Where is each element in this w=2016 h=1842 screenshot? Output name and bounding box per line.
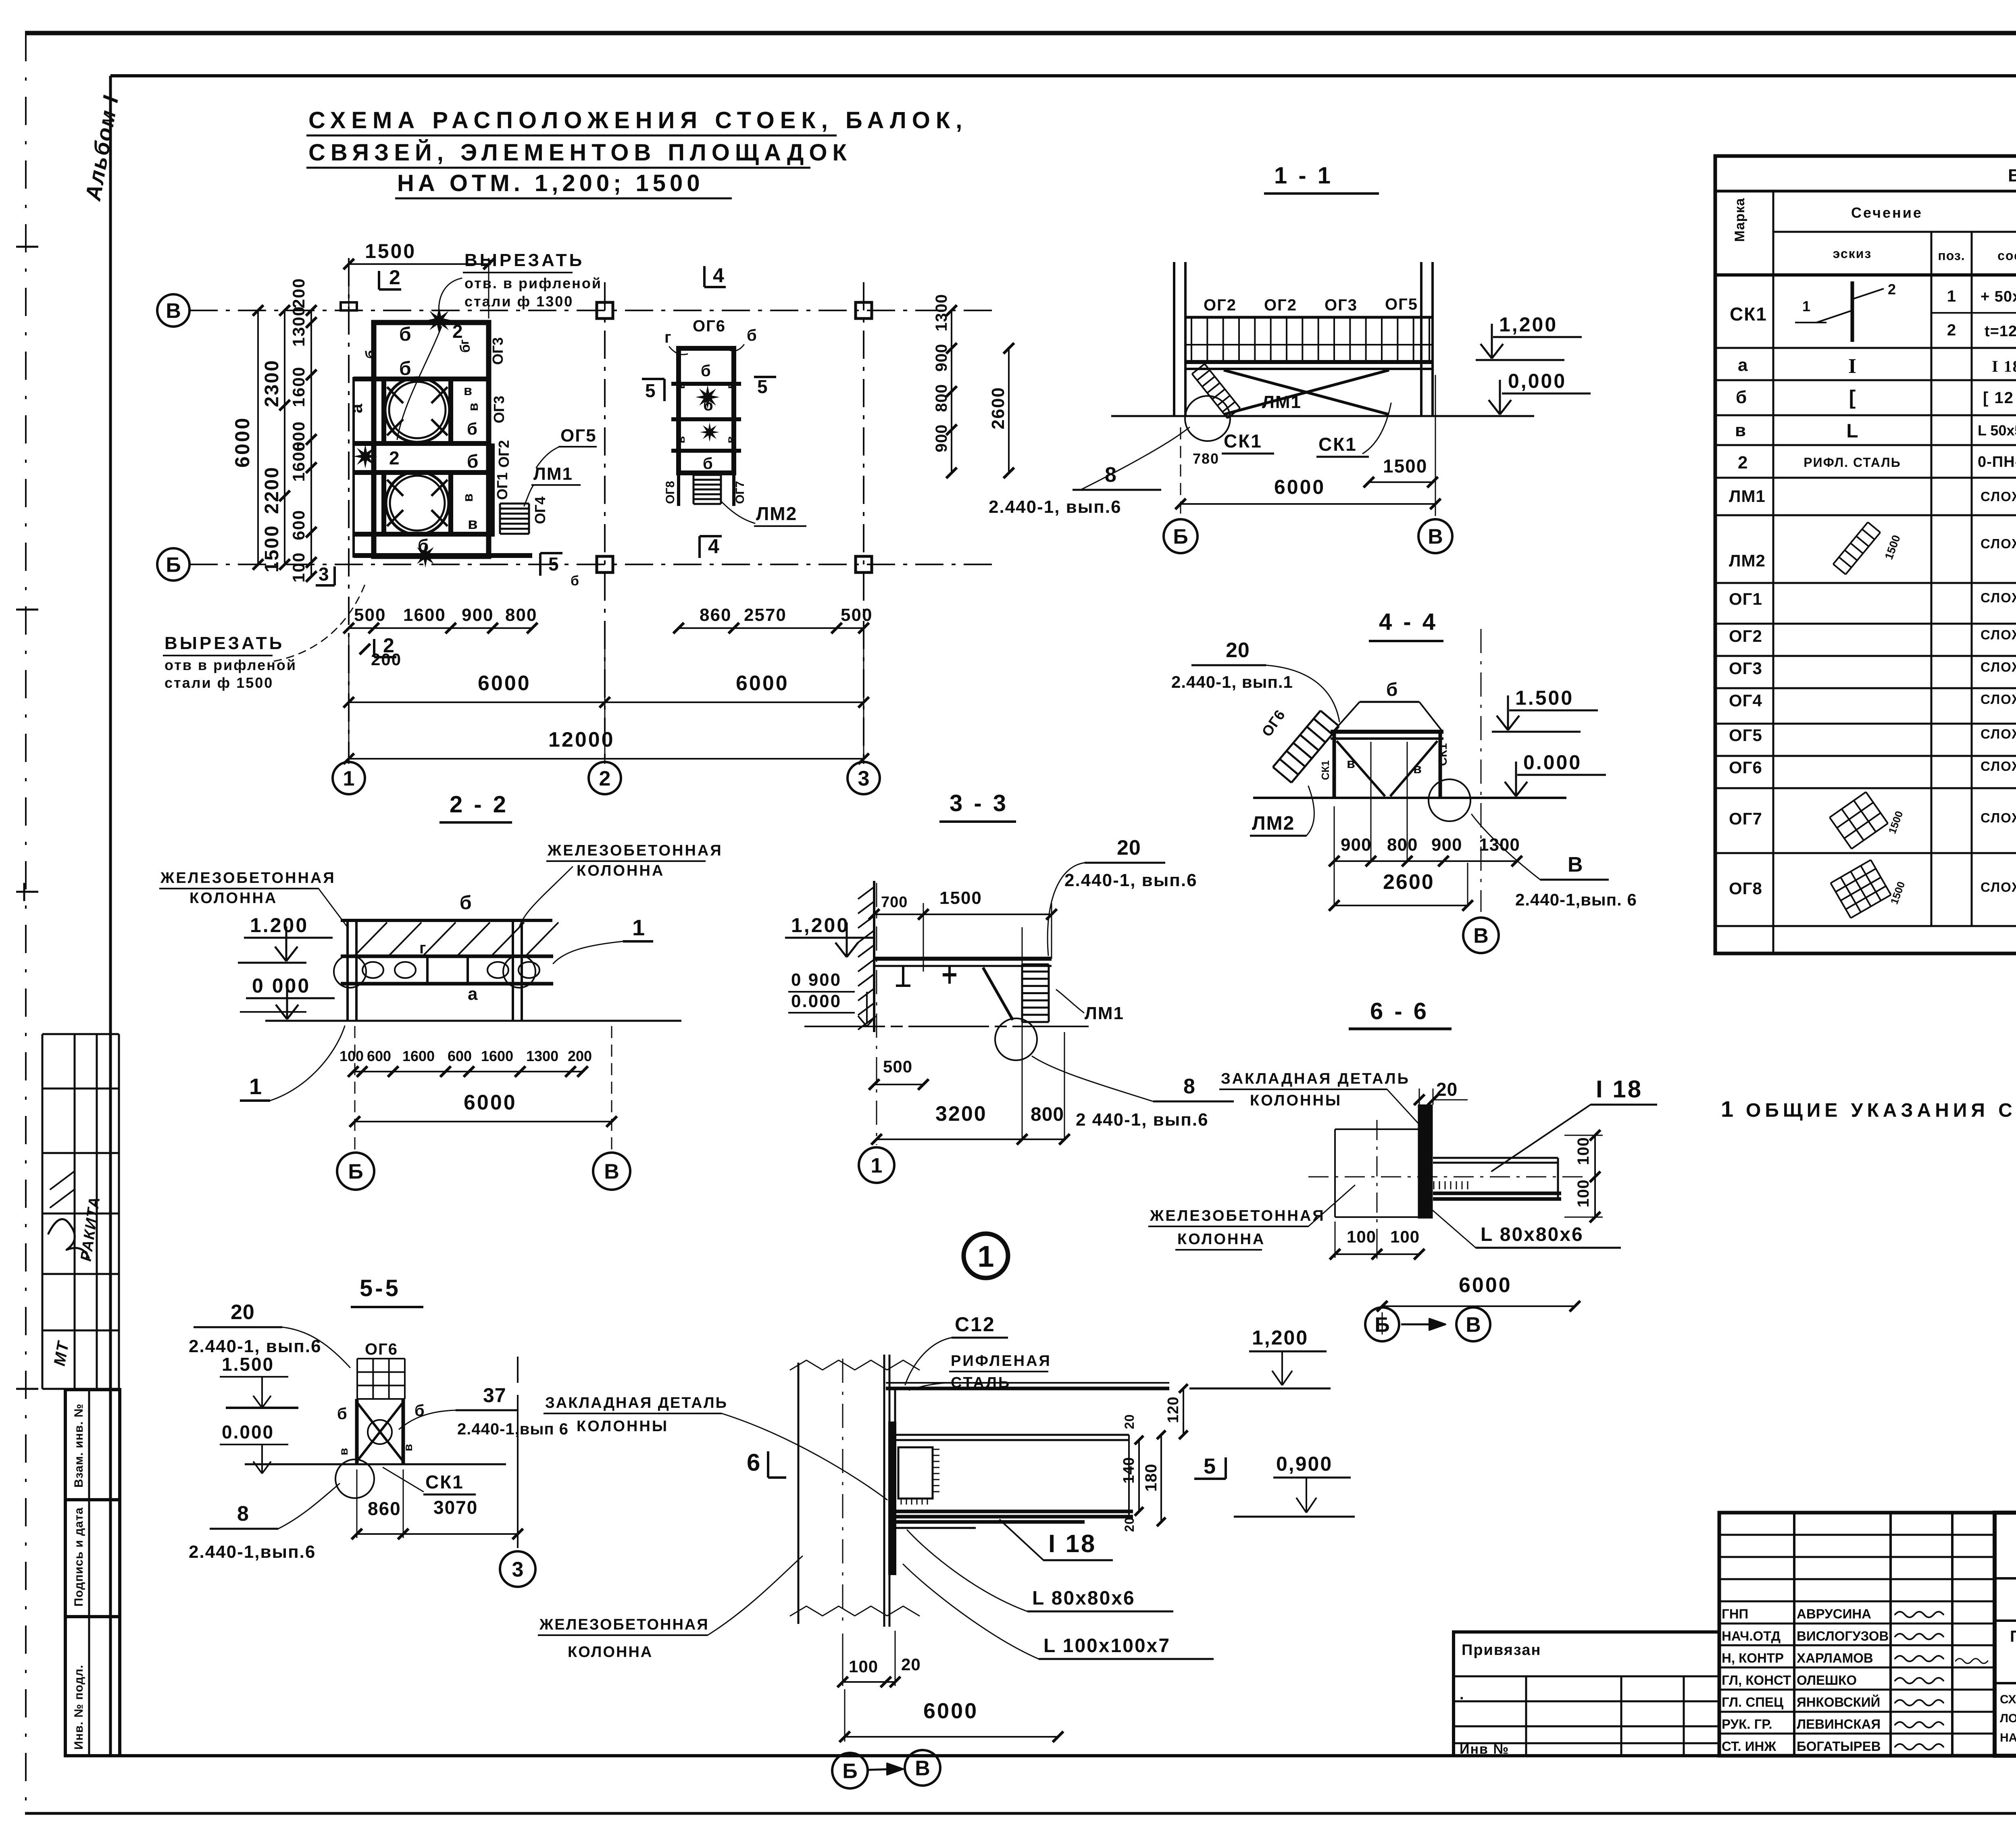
- svg-text:КОЛОННА: КОЛОННА: [190, 890, 277, 907]
- svg-text:ЖЕЛЕЗОБЕТОННАЯ: ЖЕЛЕЗОБЕТОННАЯ: [160, 870, 336, 887]
- svg-text:2: 2: [1888, 281, 1896, 298]
- plan unit 1: internal beams: [354, 377, 489, 381]
- svg-text:СЛОЖНЫЙ: СЛОЖНЫЙ: [1981, 879, 2016, 895]
- svg-text:С12: С12: [955, 1313, 996, 1336]
- svg-text:СХЕМА РАСПОЛОЖЕНИЯ СТОЕК, БА-: СХЕМА РАСПОЛОЖЕНИЯ СТОЕК, БА-: [2000, 1693, 2016, 1706]
- svg-text:СК1: СК1: [1224, 431, 1262, 452]
- section 1-1: railing mid rail: [1187, 344, 1433, 346]
- svg-text:2.440-1, вып.6: 2.440-1, вып.6: [189, 1336, 322, 1356]
- svg-text:состав: состав: [1997, 248, 2016, 263]
- section 1-1: level 1.200: [1491, 324, 1493, 357]
- svg-text:ВИСЛОГУЗОВ: ВИСЛОГУЗОВ: [1797, 1628, 1889, 1643]
- svg-text:Н, КОНТР: Н, КОНТР: [1722, 1651, 1784, 1665]
- svg-text:отв в рифленой: отв в рифленой: [165, 657, 297, 673]
- svg-text:ОГ4: ОГ4: [1729, 691, 1762, 710]
- svg-text:1: 1: [871, 1154, 883, 1178]
- section 2-2: level 0 000: [286, 984, 288, 1018]
- plan unit 1: chamber wall verticals: [381, 379, 386, 443]
- svg-text:5-5: 5-5: [360, 1275, 401, 1301]
- svg-text:5: 5: [1204, 1454, 1216, 1478]
- svg-text:б: б: [467, 451, 478, 472]
- svg-text:1,200: 1,200: [1252, 1326, 1308, 1349]
- node 1: axis circles Б В with arrow: [832, 1753, 868, 1788]
- svg-text:180: 180: [1142, 1463, 1160, 1492]
- section 6-6: centerlines: [1377, 1120, 1378, 1262]
- section 3-3: level 1.200: [846, 922, 848, 955]
- svg-text:200: 200: [568, 1048, 592, 1064]
- svg-text:ГЛ, КОНСТ: ГЛ, КОНСТ: [1722, 1673, 1791, 1688]
- svg-text:В: В: [166, 300, 181, 323]
- svg-text:1600: 1600: [403, 605, 446, 625]
- svg-text:в: в: [468, 515, 478, 533]
- svg-text:2 - 2: 2 - 2: [450, 791, 508, 818]
- plan: axis 1 vertical line: [348, 258, 350, 762]
- svg-text:ОГ8: ОГ8: [1729, 879, 1762, 898]
- svg-text:Сечение: Сечение: [1851, 204, 1923, 221]
- svg-text:120: 120: [1165, 1397, 1182, 1423]
- svg-text:Марка: Марка: [1732, 198, 1747, 242]
- svg-text:0.000: 0.000: [791, 991, 841, 1011]
- svg-text:6000: 6000: [1274, 476, 1325, 498]
- frame top line: [110, 74, 2016, 77]
- node 1: concrete column edges: [798, 1363, 800, 1624]
- svg-text:[ 12: [ 12: [1983, 389, 2014, 407]
- frame left line: [109, 76, 112, 1756]
- svg-text:1500: 1500: [939, 888, 982, 908]
- svg-text:20: 20: [1226, 639, 1250, 662]
- section 1-1: level 0.000: [1499, 380, 1501, 413]
- svg-text:СЛОЖНЫЙ: СЛОЖНЫЙ: [1981, 691, 2016, 707]
- svg-text:1600: 1600: [481, 1048, 513, 1064]
- svg-text:900: 900: [1431, 835, 1462, 855]
- section 1-1: axis circle Б: [1164, 519, 1198, 553]
- svg-text:t=12: t=12: [1985, 323, 2016, 340]
- section 3-3: ladder ЛМ1: [1021, 964, 1023, 1022]
- svg-text:ЯНКОВСКИЙ: ЯНКОВСКИЙ: [1797, 1694, 1880, 1710]
- plan unit 1: right edge lower vertical: [491, 443, 495, 537]
- svg-text:4: 4: [713, 264, 724, 287]
- svg-text:1 - 1: 1 - 1: [1274, 162, 1333, 189]
- svg-text:100: 100: [1574, 1137, 1592, 1165]
- svg-text:Б: Б: [348, 1160, 363, 1184]
- svg-text:г: г: [457, 339, 471, 345]
- parts table header lines: [1773, 231, 2016, 233]
- svg-text:ЛМ2: ЛМ2: [756, 503, 797, 524]
- svg-text:100: 100: [1390, 1227, 1420, 1246]
- svg-text:ОГ6: ОГ6: [1729, 758, 1762, 777]
- svg-text:В: В: [1473, 924, 1489, 948]
- svg-text:6000: 6000: [736, 672, 789, 695]
- svg-text:ЛОК, СВЯЗЕЙ, ЭЛЕМЕНТОВ ПЛОЩАДО: ЛОК, СВЯЗЕЙ, ЭЛЕМЕНТОВ ПЛОЩАДОК: [2000, 1711, 2016, 1725]
- svg-text:6: 6: [747, 1449, 760, 1476]
- plan: axis 3 vertical line: [863, 282, 864, 762]
- section 2-2: right column: [512, 920, 514, 1021]
- svg-text:6000: 6000: [464, 1091, 517, 1114]
- svg-text:1,200: 1,200: [791, 914, 850, 937]
- section 1-1: left column: [1173, 262, 1175, 416]
- svg-text:стали ф 1300: стали ф 1300: [464, 293, 573, 310]
- section 3-3: wall line with hatch: [873, 881, 875, 1032]
- svg-text:ОЛЕШКО: ОЛЕШКО: [1797, 1673, 1857, 1688]
- svg-text:б: б: [458, 344, 473, 353]
- svg-text:20: 20: [231, 1301, 255, 1324]
- plan unit 1: ink star top: [425, 307, 453, 334]
- svg-text:900: 900: [1341, 835, 1371, 855]
- svg-text:Подпись и дата: Подпись и дата: [72, 1507, 85, 1607]
- svg-text:ОГ5: ОГ5: [1385, 296, 1418, 313]
- svg-text:0,900: 0,900: [1276, 1453, 1333, 1475]
- svg-text:в: в: [464, 383, 472, 398]
- svg-text:ОГ3: ОГ3: [1729, 659, 1762, 678]
- svg-text:1: 1: [249, 1074, 262, 1099]
- svg-text:3 - 3: 3 - 3: [950, 790, 1008, 816]
- plan unit 1: tank circle top: [385, 378, 450, 442]
- svg-text:100: 100: [1574, 1179, 1592, 1207]
- svg-text:ОГ1: ОГ1: [494, 472, 510, 500]
- svg-text:[: [: [1849, 386, 1856, 409]
- svg-text:СЛОЖНЫЙ: СЛОЖНЫЙ: [1981, 536, 2016, 551]
- svg-text:200: 200: [371, 650, 402, 669]
- svg-text:б: б: [701, 362, 711, 380]
- svg-text:ЖЕЛЕЗОБЕТОННАЯ: ЖЕЛЕЗОБЕТОННАЯ: [539, 1616, 709, 1633]
- svg-text:2.440-1, вып.1: 2.440-1, вып.1: [1171, 672, 1293, 691]
- svg-text:1500: 1500: [261, 525, 283, 572]
- section 4-4: ground line: [1253, 797, 1566, 799]
- section 1-1: right column: [1420, 262, 1422, 416]
- svg-text:860: 860: [700, 605, 731, 625]
- svg-text:3070: 3070: [433, 1497, 478, 1518]
- svg-text:6000: 6000: [923, 1699, 978, 1723]
- svg-text:ОГ3: ОГ3: [489, 337, 506, 365]
- parts table СК1 sub-row line: [1931, 312, 2016, 314]
- svg-text:В: В: [1428, 525, 1443, 549]
- svg-text:ЗАКЛАДНАЯ ДЕТАЛЬ: ЗАКЛАДНАЯ ДЕТАЛЬ: [1221, 1070, 1410, 1087]
- svg-text:РИФЛЕНАЯ: РИФЛЕНАЯ: [951, 1353, 1052, 1370]
- svg-text:1.500: 1.500: [1515, 687, 1574, 709]
- svg-text:100: 100: [1347, 1227, 1376, 1246]
- svg-text:б: б: [1386, 679, 1397, 700]
- section 4-4: node circle: [1429, 779, 1470, 821]
- section 2-2: beam band details: [362, 962, 383, 978]
- section 2-2: column node circles: [334, 955, 366, 988]
- svg-text:ОГ2: ОГ2: [496, 440, 512, 468]
- svg-text:СТ. ИНЖ: СТ. ИНЖ: [1722, 1739, 1776, 1754]
- svg-text:6000: 6000: [1459, 1274, 1512, 1297]
- svg-text:1500: 1500: [365, 240, 416, 262]
- svg-text:20: 20: [901, 1655, 921, 1674]
- plan unit 1: tank circle bottom: [386, 472, 449, 535]
- plan: axis circle 2: [589, 762, 621, 794]
- plan unit 1: outer bold frame: [374, 323, 489, 556]
- svg-text:800: 800: [933, 384, 950, 412]
- svg-text:б: б: [337, 1405, 347, 1423]
- svg-text:СЛОЖНЫЙ: СЛОЖНЫЙ: [1981, 489, 2016, 504]
- svg-text:ОГ1: ОГ1: [1729, 589, 1762, 608]
- plan unit 1: ink star bottom: [413, 543, 437, 568]
- svg-text:Б: Б: [842, 1760, 857, 1783]
- svg-text:в: в: [674, 436, 687, 443]
- node 1: gusset plate with weld hatch: [898, 1447, 933, 1499]
- svg-text:ОГ4: ОГ4: [532, 497, 548, 524]
- svg-text:5: 5: [757, 376, 768, 397]
- svg-text:ОГ5: ОГ5: [1729, 726, 1762, 745]
- section 5-5: axis circle 3: [500, 1551, 535, 1587]
- svg-text:КОЛОННА: КОЛОННА: [577, 862, 664, 879]
- svg-text:ВЫРЕЗАТЬ: ВЫРЕЗАТЬ: [464, 250, 584, 270]
- svg-text:ХАРЛАМОВ: ХАРЛАМОВ: [1797, 1651, 1873, 1665]
- svg-text:СЛОЖНЫЙ: СЛОЖНЫЙ: [1981, 627, 2016, 642]
- plan unit 2: ladder ЛМ2: [693, 475, 695, 504]
- node 1: right dim chains 120 140 180: [1138, 1440, 1140, 1511]
- node 1: I-beam top flange: [895, 1434, 1129, 1436]
- svg-text:2.440-1, вып.6: 2.440-1, вып.6: [989, 497, 1122, 517]
- svg-text:ОГ8: ОГ8: [664, 481, 677, 504]
- svg-text:В: В: [915, 1757, 930, 1780]
- svg-text:700: 700: [881, 894, 908, 911]
- node 1: column break marks: [790, 1360, 919, 1370]
- svg-text:2.440-1,вып 6: 2.440-1,вып 6: [457, 1420, 569, 1438]
- svg-text:8: 8: [1183, 1075, 1195, 1098]
- svg-text:100: 100: [339, 1048, 364, 1064]
- svg-text:В: В: [604, 1160, 619, 1184]
- svg-text:б: б: [399, 358, 411, 379]
- section 2-2: left column: [346, 920, 349, 1021]
- plan unit 1: left wing vertical: [352, 377, 355, 558]
- svg-text:ОГ2: ОГ2: [1264, 296, 1297, 314]
- svg-text:I 18: I 18: [1596, 1076, 1643, 1103]
- svg-text:1.500: 1.500: [222, 1354, 274, 1375]
- svg-text:1: 1: [1947, 287, 1956, 305]
- svg-text:+ 50х52х5: + 50х52х5: [1981, 288, 2016, 305]
- svg-text:900: 900: [933, 424, 950, 452]
- section 2-2: top slab line: [341, 919, 552, 922]
- svg-text:ЗАКЛАДНАЯ ДЕТАЛЬ: ЗАКЛАДНАЯ ДЕТАЛЬ: [545, 1395, 728, 1411]
- svg-text:2600: 2600: [988, 387, 1008, 429]
- svg-text:3200: 3200: [935, 1102, 987, 1126]
- svg-text:поз.: поз.: [1938, 248, 1965, 263]
- svg-text:в: в: [402, 1444, 415, 1451]
- svg-text:.: .: [1460, 1686, 1465, 1703]
- svg-text:4 - 4: 4 - 4: [1379, 609, 1438, 635]
- svg-text:2: 2: [389, 447, 400, 468]
- svg-text:КОЛОННА: КОЛОННА: [1177, 1231, 1265, 1248]
- svg-text:Б: Б: [1375, 1313, 1389, 1337]
- section 1-1: railing top rail: [1187, 316, 1433, 319]
- plan unit 2: outer bold frame: [679, 348, 734, 473]
- svg-text:1500: 1500: [1383, 456, 1427, 477]
- svg-text:L: L: [1846, 420, 1858, 442]
- section 1-1: platform band: [1187, 360, 1433, 364]
- section 6-6: I-beam end: [1557, 1158, 1559, 1199]
- svg-text:ОГ5: ОГ5: [560, 426, 597, 445]
- svg-text:СЛОЖНЫЙ: СЛОЖНЫЙ: [1981, 726, 2016, 741]
- section 2-2: beam band: [341, 955, 553, 958]
- svg-text:НАЧ.ОТД: НАЧ.ОТД: [1722, 1628, 1781, 1643]
- section 4-4: platform: [1331, 730, 1443, 734]
- svg-text:СЛОЖНЫЙ: СЛОЖНЫЙ: [1981, 810, 2016, 825]
- section 6-6: weld ticks: [1433, 1181, 1435, 1189]
- sheet bottom edge line: [25, 1812, 2016, 1815]
- plan: axis circle В: [157, 294, 190, 327]
- parts table title underline / header top: [1715, 190, 2016, 193]
- left margin tick marks: [16, 246, 38, 248]
- svg-text:1300: 1300: [526, 1048, 558, 1064]
- section 6-6: I-beam bottom flange: [1433, 1192, 1561, 1195]
- svg-text:2 440-1, вып.6: 2 440-1, вып.6: [1076, 1110, 1209, 1130]
- section 1-1: axis circle В: [1418, 519, 1452, 553]
- svg-text:900: 900: [462, 605, 494, 625]
- svg-text:СК1: СК1: [1318, 434, 1357, 455]
- svg-text:СК1: СК1: [425, 1472, 464, 1492]
- section 4-4: top slab trapezoid: [1360, 701, 1419, 703]
- svg-text:ОГ2: ОГ2: [1204, 296, 1237, 314]
- svg-text:в: в: [724, 382, 737, 389]
- plan: axis circle Б: [157, 548, 190, 581]
- section 1-1: ground line: [1111, 415, 1534, 417]
- svg-text:ОБЩИЕ УКАЗАНИЯ СМ ЛИСТ 1.: ОБЩИЕ УКАЗАНИЯ СМ ЛИСТ 1.: [1746, 1100, 2016, 1121]
- plan unit 1: leader from star to cut note: [397, 327, 442, 439]
- svg-text:100: 100: [849, 1657, 878, 1676]
- section 4-4: columns: [1333, 732, 1336, 798]
- upper-left stamp scribble: [48, 1219, 89, 1258]
- svg-text:СЛОЖНЫЙ: СЛОЖНЫЙ: [1981, 758, 2016, 774]
- section 6-6: axis circles Б and В with arrow: [1365, 1307, 1399, 1341]
- svg-text:1600: 1600: [289, 441, 308, 482]
- svg-text:ЛМ1: ЛМ1: [533, 464, 573, 484]
- svg-text:500: 500: [354, 605, 386, 625]
- svg-text:2: 2: [599, 767, 611, 791]
- section 5-5: column with X brace: [355, 1399, 359, 1464]
- section 4-4: axis dash line and circle В: [1481, 629, 1482, 912]
- section 4-4: level 0.000: [1515, 762, 1517, 795]
- section 1-1: node circle: [1185, 396, 1230, 441]
- svg-text:В: В: [1466, 1313, 1481, 1337]
- svg-text:600: 600: [448, 1048, 472, 1064]
- plan unit 1: ink star middle: [353, 444, 377, 468]
- svg-text:1.200: 1.200: [250, 914, 308, 937]
- svg-text:1: 1: [343, 767, 355, 791]
- section 5-5: vertical ref line: [517, 1395, 519, 1548]
- svg-text:200: 200: [289, 278, 308, 308]
- plan unit 2: ink stars: [696, 385, 720, 409]
- svg-text:1: 1: [977, 1240, 994, 1273]
- svg-text:ПУНКТ ПРИГОТОВЛЕНИЯ: ПУНКТ ПРИГОТОВЛЕНИЯ: [2010, 1628, 2016, 1645]
- section 2-2: axis circle Б: [337, 1153, 374, 1190]
- svg-text:КОЛОННЫ: КОЛОННЫ: [1250, 1092, 1342, 1109]
- svg-text:I 18: I 18: [1992, 357, 2016, 375]
- svg-text:2: 2: [1738, 453, 1747, 472]
- section 3-3: brace diagonal: [983, 968, 1013, 1020]
- svg-text:100: 100: [289, 552, 308, 583]
- svg-text:1,200: 1,200: [1499, 313, 1558, 336]
- svg-text:В: В: [1568, 853, 1583, 876]
- svg-text:б: б: [399, 324, 411, 345]
- svg-text:ОГ3: ОГ3: [1325, 296, 1358, 314]
- plan: axis circle 1: [333, 762, 365, 794]
- svg-text:0,000: 0,000: [1508, 370, 1566, 392]
- svg-text:Ведомость элементов: Ведомость элементов: [2008, 166, 2016, 185]
- section 4-4: level 1.500: [1507, 695, 1509, 728]
- svg-text:БОГАТЫРЕВ: БОГАТЫРЕВ: [1797, 1739, 1881, 1754]
- svg-text:Инв №: Инв №: [1460, 1742, 1509, 1757]
- svg-text:ГЛ. СПЕЦ: ГЛ. СПЕЦ: [1722, 1695, 1783, 1710]
- svg-text:ЛМ1: ЛМ1: [1262, 392, 1302, 412]
- section 5-5: node circle: [335, 1459, 374, 1498]
- section 6-6: embedded plate: [1419, 1106, 1431, 1217]
- svg-text:КОЛОННЫ: КОЛОННЫ: [577, 1418, 669, 1435]
- section 6-6: right dims 100 100: [1594, 1135, 1596, 1217]
- svg-text:ОГ7: ОГ7: [733, 481, 747, 504]
- plan unit 2: internal beams: [671, 382, 741, 386]
- svg-text:в: в: [337, 1448, 350, 1455]
- svg-text:ОГ6: ОГ6: [365, 1340, 398, 1358]
- svg-text:б: б: [362, 350, 379, 359]
- section 6-6: I-beam top flange: [1433, 1157, 1558, 1159]
- svg-text:СХЕМА РАСПОЛОЖЕНИЯ СТОЕК, БАЛО: СХЕМА РАСПОЛОЖЕНИЯ СТОЕК, БАЛОК,: [308, 107, 968, 133]
- svg-text:L 80х80х6: L 80х80х6: [1481, 1224, 1584, 1245]
- svg-text:2300: 2300: [261, 359, 283, 407]
- svg-text:Б: Б: [166, 554, 181, 577]
- svg-text:а: а: [347, 404, 366, 413]
- svg-text:в: в: [460, 493, 476, 502]
- svg-text:б: б: [703, 455, 713, 472]
- svg-text:СЛОЖНЫЙ: СЛОЖНЫЙ: [1981, 659, 2016, 674]
- node 1: big circle marker: [964, 1234, 1008, 1278]
- svg-text:эскиз: эскиз: [1833, 246, 1872, 261]
- svg-text:0 900: 0 900: [791, 970, 841, 990]
- svg-text:в: в: [674, 382, 687, 389]
- svg-text:в: в: [1413, 761, 1422, 776]
- plan unit 1: corner braces top chamber: [387, 387, 403, 403]
- parts table (Ведомость элементов) outer border: [1715, 156, 2016, 953]
- section 1-1: railing posts: [1191, 317, 1192, 362]
- section 3-3: hanger details: [902, 966, 904, 986]
- svg-text:ЛМ2: ЛМ2: [1729, 551, 1766, 570]
- svg-text:ОГ3: ОГ3: [491, 396, 507, 423]
- section 3-3: ground line: [804, 1026, 1089, 1027]
- svg-text:б: б: [418, 536, 429, 556]
- svg-text:1: 1: [1721, 1096, 1733, 1122]
- svg-text:АВРУСИНА: АВРУСИНА: [1797, 1607, 1871, 1621]
- svg-text:б: б: [571, 573, 579, 589]
- upper-left stamp table: [42, 1034, 44, 1389]
- node 1: embedded plate: [889, 1423, 895, 1574]
- sheet top edge line: [25, 31, 2016, 35]
- svg-text:1300: 1300: [289, 306, 308, 347]
- section 3-3: axis circle 1: [859, 1147, 894, 1183]
- svg-text:Привязан: Привязан: [1462, 1642, 1541, 1659]
- svg-text:г: г: [419, 939, 426, 957]
- svg-text:2.440-1, вып.6: 2.440-1, вып.6: [1064, 870, 1198, 890]
- svg-text:3: 3: [512, 1558, 524, 1582]
- svg-text:НА ОТМ. 1,200 ; 1,500: НА ОТМ. 1,200 ; 1,500: [2000, 1731, 2016, 1744]
- svg-text:Б: Б: [1173, 525, 1188, 549]
- svg-text:НА ОТМ. 1,200; 1500: НА ОТМ. 1,200; 1500: [397, 170, 704, 196]
- svg-text:ЖЕЛЕЗОБЕТОННАЯ: ЖЕЛЕЗОБЕТОННАЯ: [547, 842, 723, 859]
- svg-text:РИФЛ. СТАЛЬ: РИФЛ. СТАЛЬ: [1804, 455, 1901, 470]
- svg-text:отв. в рифленой: отв. в рифленой: [464, 275, 602, 291]
- svg-text:1: 1: [1802, 298, 1810, 314]
- svg-text:I: I: [1848, 355, 1856, 378]
- svg-text:8: 8: [237, 1502, 249, 1526]
- section 4-4: braces: [1337, 741, 1385, 796]
- svg-text:600: 600: [289, 510, 308, 540]
- svg-text:КОЛОННА: КОЛОННА: [568, 1644, 653, 1661]
- svg-text:а: а: [1738, 355, 1748, 375]
- lower-left stamp column: [65, 1390, 120, 1756]
- svg-text:140: 140: [1120, 1457, 1137, 1484]
- svg-text:б: б: [460, 892, 472, 914]
